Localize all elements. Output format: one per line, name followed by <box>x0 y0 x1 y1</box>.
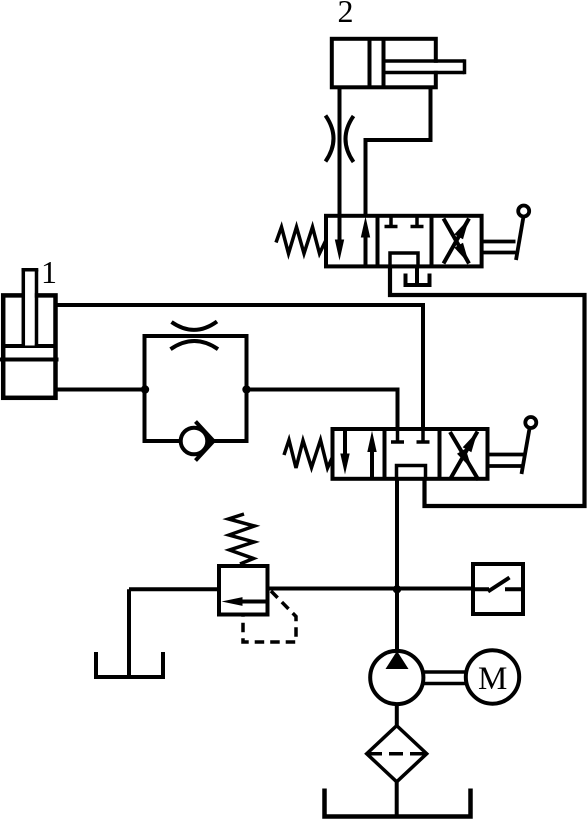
relief valve body <box>219 566 268 615</box>
valve V1 spring <box>276 227 326 254</box>
wire relief valve to junction <box>270 587 472 591</box>
wire cylinder 2 left port down to valve 1 <box>338 89 342 216</box>
flow control valve box (one-way throttle) <box>145 336 247 441</box>
tank under relief valve <box>96 652 163 677</box>
wire valve V2 pressure port down to pump <box>395 479 399 652</box>
valve V2 center blocked port T left <box>391 429 404 442</box>
wire cylinder 1 top port to valve V2 <box>56 305 424 429</box>
cylinder 2 piston rod <box>384 59 465 74</box>
relief valve pilot line (dashed) <box>243 591 296 642</box>
wire cylinder 1 bottom port to flow control <box>56 388 145 392</box>
relief valve spring <box>229 514 255 564</box>
relief valve arrow <box>222 597 267 606</box>
pressure switch box <box>473 564 523 614</box>
valve V2 left position down arrow <box>340 429 349 475</box>
wire pump inlet to filter <box>395 704 399 726</box>
pressure switch contact <box>471 578 525 592</box>
wire filter to tank <box>395 782 399 817</box>
svg-text:M: M <box>478 661 507 697</box>
wire relief valve drain to tank <box>127 589 131 677</box>
pump P1 <box>370 651 423 704</box>
node pump junction <box>393 585 401 593</box>
valve V1 body (3-position directional valve) <box>326 216 482 267</box>
filter F1 <box>367 726 427 782</box>
valve V2 body (3-position directional valve) <box>333 429 488 479</box>
check valve seat <box>196 422 214 461</box>
valve V1 center blocked port T left <box>385 216 398 227</box>
throttle arcs on flow control <box>171 322 219 350</box>
valve V2 center blocked port T right <box>417 429 430 442</box>
valve V2 lever <box>488 417 537 474</box>
valve V1 drain tank symbol <box>406 274 430 286</box>
valve V2 spring <box>284 440 333 468</box>
shaft coupling pump-motor <box>422 672 466 684</box>
svg-text:1: 1 <box>41 254 57 290</box>
svg-text:2: 2 <box>338 0 354 29</box>
valve V1 center bottom port box <box>390 253 418 266</box>
node left port of flow control <box>141 385 149 393</box>
valve V1 drain port line <box>415 266 419 283</box>
cylinder 2 body <box>332 37 436 89</box>
valve V2 right position crossed arrows <box>450 429 482 480</box>
valve V1 left position down arrow <box>335 216 344 261</box>
valve V2 center bottom port box <box>397 466 426 479</box>
valve V2 left position up arrow <box>367 431 376 479</box>
valve V1 left position up arrow <box>361 217 370 267</box>
node right port of flow control <box>242 385 250 393</box>
cylinder 1 body <box>3 295 55 397</box>
valve V1 center blocked port T right <box>411 216 424 227</box>
valve V1 lever <box>482 206 530 261</box>
throttle orifice on cylinder 2 line <box>326 116 354 163</box>
wire junction to relief valve <box>129 587 217 591</box>
check valve ball <box>181 428 208 455</box>
main tank <box>325 789 471 817</box>
motor M <box>466 650 519 703</box>
wire flow control to valve V2 left input <box>247 390 398 430</box>
wire cylinder 2 right port to valve 1 <box>366 89 431 216</box>
cylinder 1 piston <box>0 346 59 360</box>
wire valve V1 output to right loop down to valve V2 bottom <box>390 266 585 506</box>
cylinder 1 piston rod <box>22 270 39 346</box>
valve V1 right position crossed arrows <box>444 216 474 266</box>
